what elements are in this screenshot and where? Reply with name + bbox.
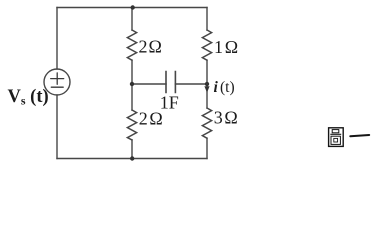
node junction mid-right [205,82,209,86]
wire bottom rail [57,158,207,160]
node junction bottom [130,156,134,160]
svg-text:3Ω: 3Ω [214,107,238,127]
wire capacitor row right [175,83,207,85]
glyph tu middle bar [330,133,341,135]
resistor 1ohm [202,30,211,60]
wire right branch top lead [206,8,208,31]
wire right branch bottom lead [206,138,208,158]
wire left branch upper [56,8,58,70]
svg-text:Vs (t): Vs (t) [8,87,49,108]
vs source plus-minus symbol [51,73,64,87]
svg-text:i(t): i(t) [214,79,235,96]
wire right branch mid [206,60,208,108]
label figure one (CJK drawn) [329,128,370,147]
glyph tu inner hui outer [331,136,340,144]
resistor 3ohm [202,108,211,138]
wire top rail [57,7,207,9]
glyph tu (picture) outer box [329,128,344,147]
glyph tu inner hui inner [334,138,338,142]
wire left branch lower [56,95,58,159]
wire middle branch top lead [131,8,133,31]
wire capacitor row left [132,83,166,85]
node junction top [131,5,135,9]
current arrow i(t) [204,86,209,92]
resistor 2ohm top [127,30,136,60]
wire middle branch bottom lead [131,140,133,159]
capacitor 1F plates [166,72,175,93]
voltage source Vs [44,69,70,95]
svg-text:1Ω: 1Ω [214,37,238,57]
svg-text:2Ω: 2Ω [139,37,162,57]
glyph tu inner mouth [332,130,339,133]
wire middle branch mid [131,60,133,110]
svg-text:2Ω: 2Ω [139,109,163,129]
node junction mid-left [130,82,134,86]
glyph yi (one) [350,135,369,136]
resistor 2ohm bottom [127,110,136,140]
